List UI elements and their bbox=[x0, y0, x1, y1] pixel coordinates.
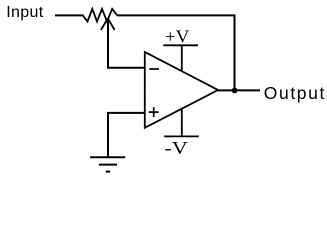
op-amp inverting input minus sign bbox=[149, 68, 159, 70]
svg-text:Output: Output bbox=[264, 83, 326, 103]
potentiometer wiper arrowhead bbox=[101, 18, 108, 30]
+V supply stem bbox=[181, 45, 183, 71]
wire non-inverting input to ground bbox=[108, 113, 145, 157]
svg-text:Input: Input bbox=[6, 4, 44, 21]
+V supply bar bbox=[163, 44, 198, 46]
ground bar 1 bbox=[90, 156, 125, 158]
op-amp U1 triangle bbox=[145, 52, 218, 128]
junction dot output node bbox=[232, 88, 238, 94]
feedback wire potentiometer to output node bbox=[117, 15, 234, 90]
svg-text:-V: -V bbox=[164, 138, 187, 158]
op-amp non-inverting input plus sign bbox=[149, 111, 159, 113]
-V supply stem bbox=[181, 108, 183, 136]
wire input to potentiometer bbox=[55, 14, 84, 16]
potentiometer R1 body bbox=[83, 9, 118, 22]
wire op-amp output bbox=[218, 89, 260, 91]
-V supply bar bbox=[164, 135, 199, 137]
ground bar 2 bbox=[99, 164, 117, 166]
wire wiper to inverting input bbox=[108, 19, 145, 68]
ground bar 3 bbox=[106, 171, 110, 173]
svg-text:+V: +V bbox=[165, 26, 190, 46]
